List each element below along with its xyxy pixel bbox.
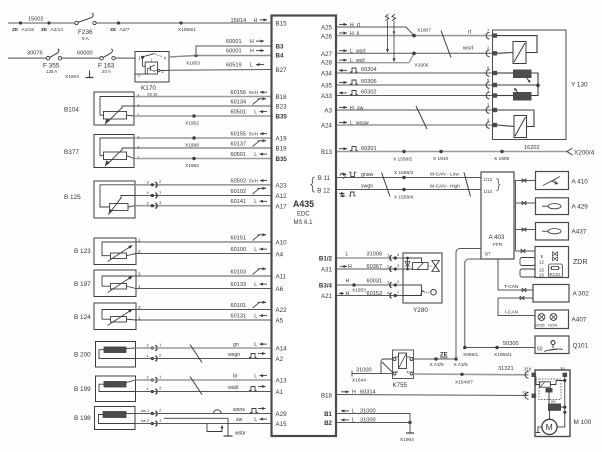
connector pair B125 pin2-3 xyxy=(147,200,163,209)
svg-text:A24: A24 xyxy=(321,123,333,130)
svg-text:X1907: X1907 xyxy=(417,28,431,34)
svg-text:B 200: B 200 xyxy=(74,352,91,359)
svg-text:X1953: X1953 xyxy=(352,288,366,294)
svg-text:31321: 31321 xyxy=(498,366,514,372)
wire 60031 (B3/4 to Y280) xyxy=(337,278,403,285)
svg-text:2: 2 xyxy=(147,343,150,348)
svg-text:B1: B1 xyxy=(324,411,332,418)
svg-text:B 125: B 125 xyxy=(64,194,81,201)
svg-text:A26: A26 xyxy=(321,34,333,41)
svg-text:6: 6 xyxy=(487,78,489,82)
Y130 pin 7 xyxy=(486,29,497,40)
node X1998 xyxy=(185,136,199,148)
svg-text:B 197: B 197 xyxy=(74,281,91,288)
twisted-pair mark CAN right xyxy=(464,173,471,197)
svg-text:A1/16: A1/16 xyxy=(22,27,35,33)
svg-text:2: 2 xyxy=(147,200,150,205)
brace for B11/B12 pins xyxy=(311,177,315,192)
svg-text:H: H xyxy=(346,278,350,284)
wire A403 3/7 down to X669/1 xyxy=(465,259,481,348)
Y130 pin 4 xyxy=(486,118,497,128)
sensor B123 (NTC thermistor) xyxy=(74,238,141,265)
svg-text:B377: B377 xyxy=(64,149,79,156)
svg-text:X 1910: X 1910 xyxy=(433,156,449,162)
svg-text:31b: 31b xyxy=(524,367,532,372)
svg-text:A 429: A 429 xyxy=(572,204,589,211)
wire 60151 (B123 to A10) xyxy=(136,235,271,242)
ground stub X1904 (upper) xyxy=(65,71,94,81)
node X 1910 xyxy=(433,150,449,162)
svg-text:A17: A17 xyxy=(276,204,288,211)
wire A34 60304 xyxy=(337,67,493,73)
svg-text:B 198: B 198 xyxy=(74,415,91,422)
transistor inside xyxy=(149,66,151,71)
wire B12 swgn M-CAN-High xyxy=(337,184,481,197)
svg-text:X 1558/3: X 1558/3 xyxy=(394,170,414,176)
wire wsns (B198 to A29) xyxy=(135,407,271,414)
fuse F355 125A xyxy=(43,49,62,74)
wire 60501 (B104-1 to B35) xyxy=(134,110,271,117)
twisted-pair mark rt/wsrt xyxy=(441,31,451,58)
wire branch to A437 xyxy=(516,228,536,232)
svg-text:B35: B35 xyxy=(276,156,288,163)
svg-text:2: 2 xyxy=(487,46,489,50)
node X 1558/4 xyxy=(394,188,414,201)
svg-text:1: 1 xyxy=(159,190,162,195)
svg-text:X1644: X1644 xyxy=(352,378,366,384)
svg-text:X200/4: X200/4 xyxy=(574,150,595,157)
svg-text:3: 3 xyxy=(147,180,150,185)
M100 internal relay (dashed box, MR) xyxy=(536,377,565,404)
node ZE A1/16 xyxy=(12,21,34,33)
svg-text:H: H xyxy=(348,264,352,270)
svg-text:60156: 60156 xyxy=(231,90,247,96)
wire 60367 (A31 to Y280) xyxy=(337,264,403,270)
twisted-pair mark CAN left xyxy=(382,173,391,197)
svg-text:A14: A14 xyxy=(276,346,288,353)
svg-text:31006: 31006 xyxy=(367,252,383,258)
svg-text:16: 16 xyxy=(539,273,544,278)
svg-text:B4: B4 xyxy=(276,53,284,60)
wire sw (B198 to A15) xyxy=(135,417,271,424)
svg-text:wsbr: wsbr xyxy=(235,431,246,437)
svg-text:B19: B19 xyxy=(276,146,288,153)
connector pair B200 bottom xyxy=(147,353,163,362)
fuse F163 20A xyxy=(98,49,115,74)
svg-text:3/7: 3/7 xyxy=(485,252,492,257)
svg-text:5VH: 5VH xyxy=(249,90,258,95)
control unit ZDR xyxy=(535,247,587,278)
svg-text:X1953: X1953 xyxy=(186,61,200,67)
svg-text:A407: A407 xyxy=(572,317,587,324)
svg-text:B 124: B 124 xyxy=(74,314,91,321)
svg-text:A31: A31 xyxy=(321,267,333,274)
sensor B377 (potentiometer) xyxy=(64,135,140,168)
wire A33 60302 xyxy=(337,90,493,96)
svg-text:4: 4 xyxy=(397,252,400,257)
svg-text:12: 12 xyxy=(539,260,544,265)
control unit A410 xyxy=(536,172,589,190)
svg-text:1: 1 xyxy=(159,418,162,423)
twisted-pair mark sw/wssw xyxy=(416,106,427,129)
wire 60103 (B197 to A11) xyxy=(136,269,271,276)
svg-text:31000: 31000 xyxy=(360,409,376,415)
connector pair B198 bottom xyxy=(141,418,162,427)
svg-text:2: 2 xyxy=(159,179,162,184)
svg-text:A12: A12 xyxy=(276,193,288,200)
wire 15002 / 15014 (terminal 15 feed) xyxy=(8,17,271,24)
node X A3/5 xyxy=(454,357,468,368)
svg-text:60137: 60137 xyxy=(231,142,247,148)
svg-text:A435: A435 xyxy=(293,199,314,209)
svg-text:7: 7 xyxy=(487,29,489,33)
svg-text:ZE: ZE xyxy=(440,353,448,359)
M100 pin30 feed line xyxy=(557,377,566,427)
svg-text:EDC: EDC xyxy=(297,212,310,218)
connector pair Y280 row1 (1-4) xyxy=(387,252,400,261)
wire bl (B199 to A13) xyxy=(136,374,272,381)
wire A25 rt xyxy=(337,22,414,35)
svg-text:1: 1 xyxy=(159,374,162,379)
Y130 solenoid coil 2 (dark) xyxy=(497,86,538,101)
svg-text:60141: 60141 xyxy=(231,199,247,205)
svg-text:X 1558/2: X 1558/2 xyxy=(393,157,413,163)
wire 60519 to B27 (from K170 pin 2) xyxy=(169,63,271,71)
svg-text:1/12: 1/12 xyxy=(484,177,493,182)
svg-text:H: H xyxy=(250,39,254,45)
M100 pin 30 xyxy=(560,367,567,378)
svg-text:H294: H294 xyxy=(548,324,557,328)
svg-text:A10: A10 xyxy=(276,240,288,247)
wire 60102 (B125 to A12) xyxy=(135,188,271,195)
Y130 pin 1 xyxy=(486,88,497,99)
wire I-CAN (A302 to A407) xyxy=(498,296,535,316)
svg-text:X 1909: X 1909 xyxy=(494,156,510,162)
svg-text:A29: A29 xyxy=(276,411,288,418)
svg-text:wsrt: wsrt xyxy=(462,46,474,52)
svg-text:B1/2: B1/2 xyxy=(319,256,333,263)
wire T-CAN (A403 to A302) xyxy=(498,259,533,292)
connector pair Y280 row2 (2-3) xyxy=(387,263,400,272)
svg-text:B 123: B 123 xyxy=(74,248,91,255)
svg-text:B23: B23 xyxy=(276,104,288,111)
svg-text:A25: A25 xyxy=(321,25,333,32)
wire 31000 (B1 to ground X1904) xyxy=(337,409,410,423)
svg-text:A22: A22 xyxy=(276,307,288,314)
node X1906 xyxy=(412,52,429,69)
svg-text:60100: 60100 xyxy=(231,247,247,253)
sensor B198 (needle motion sensor, shielded) xyxy=(74,407,135,430)
svg-text:H295: H295 xyxy=(536,324,545,328)
svg-text:T-CAN: T-CAN xyxy=(504,284,519,290)
svg-text:60001: 60001 xyxy=(226,39,242,45)
svg-text:B104: B104 xyxy=(64,107,79,114)
wire 60314 (B18 to M100 pin 50) xyxy=(337,390,529,396)
connector pair B125 pin6-1 xyxy=(147,190,163,199)
svg-text:ZE: ZE xyxy=(41,27,48,33)
wire 60501 (B377-1 to B35) xyxy=(134,152,271,159)
svg-text:L: L xyxy=(254,314,257,320)
svg-text:ZE: ZE xyxy=(12,27,19,33)
svg-text:sw: sw xyxy=(236,417,243,423)
svg-text:gn: gn xyxy=(233,342,239,348)
svg-text:rt: rt xyxy=(468,30,472,36)
svg-text:60519: 60519 xyxy=(226,63,242,69)
svg-text:A6: A6 xyxy=(276,286,284,293)
svg-text:X1559/1: X1559/1 xyxy=(178,27,196,33)
svg-text:wsgn: wsgn xyxy=(228,352,240,358)
svg-text:A437: A437 xyxy=(572,229,587,236)
svg-text:wsrt: wsrt xyxy=(356,49,366,55)
svg-text:H: H xyxy=(350,22,354,28)
valve block Y130 xyxy=(493,30,589,140)
svg-text:X1982: X1982 xyxy=(185,163,199,169)
svg-text:A 410: A 410 xyxy=(572,179,589,186)
svg-text:A33: A33 xyxy=(321,93,333,100)
wire A27 wsrt / merged wsrt to Y130 pin2 xyxy=(337,46,493,55)
svg-text:ZDR: ZDR xyxy=(573,259,587,266)
svg-text:B3/4: B3/4 xyxy=(319,283,333,290)
sensor B124 (NTC thermistor) xyxy=(74,303,141,330)
Y130 node (coils join pin 6) xyxy=(497,84,540,88)
glow plug continuation line 1 xyxy=(386,14,390,53)
connector pair B200 top xyxy=(147,342,163,351)
svg-text:A2: A2 xyxy=(276,356,284,363)
svg-text:A21: A21 xyxy=(321,293,333,300)
A435 right pin labels xyxy=(317,25,332,428)
svg-text:60314: 60314 xyxy=(360,390,376,396)
Y130 valve 1 (top, white with diagonal) xyxy=(497,36,537,64)
svg-text:Y280: Y280 xyxy=(413,307,428,314)
svg-text:L: L xyxy=(254,247,257,253)
svg-text:A 302: A 302 xyxy=(573,291,590,298)
svg-text:87: 87 xyxy=(407,370,411,374)
svg-text:X1549/7: X1549/7 xyxy=(455,380,473,386)
svg-text:L: L xyxy=(254,342,257,348)
svg-text:MS 6.1: MS 6.1 xyxy=(294,220,314,226)
svg-text:M 100: M 100 xyxy=(574,419,592,426)
sensor B197 (NTC thermistor) xyxy=(74,270,141,297)
wire 60502 (B125 to A23) xyxy=(135,178,271,185)
svg-text:bl: bl xyxy=(233,374,237,380)
svg-text:X1955/1: X1955/1 xyxy=(494,352,512,358)
shield wsbr of B198 xyxy=(164,410,246,437)
svg-text:31000: 31000 xyxy=(360,418,376,424)
svg-text:A27: A27 xyxy=(321,51,333,58)
control unit A429 xyxy=(536,198,589,215)
svg-text:3: 3 xyxy=(397,263,400,268)
ZDR left connector plugs xyxy=(520,258,535,278)
svg-text:60151: 60151 xyxy=(231,236,247,242)
M100 pin 31b xyxy=(524,367,536,379)
svg-text:2: 2 xyxy=(159,353,162,358)
wire branch to ZDR xyxy=(516,249,536,253)
wire A24 wssw xyxy=(337,120,493,126)
wire 60156 (B104-3 to B18) xyxy=(134,90,271,97)
sensor B104 (potentiometer) xyxy=(64,92,140,125)
svg-text:A5: A5 xyxy=(276,318,284,325)
wire 31006 (B1/2 to Y280) xyxy=(337,252,403,259)
svg-text:HR: HR xyxy=(551,400,556,404)
node X1955/1 xyxy=(494,346,512,358)
svg-text:K755: K755 xyxy=(393,382,408,389)
svg-text:30: 30 xyxy=(560,367,565,372)
svg-text:swgn: swgn xyxy=(361,184,373,190)
svg-text:A 403: A 403 xyxy=(489,234,505,241)
svg-text:H: H xyxy=(346,291,350,297)
svg-text:5: 5 xyxy=(487,66,489,70)
svg-text:L: L xyxy=(352,418,355,424)
svg-text:B 12: B 12 xyxy=(317,188,330,195)
svg-text:1: 1 xyxy=(147,386,150,391)
CAN branch bus (vertical) xyxy=(515,181,517,252)
wire 60001 to B3 xyxy=(196,39,271,56)
svg-text:B35: B35 xyxy=(276,114,288,121)
svg-text:M-CAN - Low: M-CAN - Low xyxy=(430,172,459,178)
wire 31000 (X1644 to K755) xyxy=(352,368,395,384)
svg-text:L: L xyxy=(254,152,257,158)
Y130 pin 5 xyxy=(486,66,497,77)
svg-text:ZE: ZE xyxy=(110,27,117,33)
wire A403 to ZE node X A3/5 xyxy=(456,249,481,360)
svg-text:R134: R134 xyxy=(550,272,561,277)
svg-text:60304: 60304 xyxy=(361,67,377,73)
svg-text:wssw: wssw xyxy=(356,120,369,126)
svg-text:4: 4 xyxy=(487,118,489,122)
svg-text:B15: B15 xyxy=(276,21,288,28)
wire gn (B200 to A14) xyxy=(136,342,272,348)
twisted-pair mark B200 xyxy=(190,345,202,363)
svg-text:B 199: B 199 xyxy=(74,386,91,393)
svg-text:L: L xyxy=(254,282,257,288)
svg-text:60101: 60101 xyxy=(231,303,247,309)
svg-text:A13: A13 xyxy=(276,378,288,385)
svg-text:B2: B2 xyxy=(324,420,332,427)
control unit A437 xyxy=(536,223,587,241)
node X1559/1 xyxy=(178,21,196,32)
wire 60141 (B125 to A17) xyxy=(135,199,271,206)
svg-text:B27: B27 xyxy=(276,67,288,74)
node X669/1 xyxy=(463,346,479,358)
svg-text:85: 85 xyxy=(407,355,411,359)
svg-text:60133: 60133 xyxy=(231,282,247,288)
wire A28 wsli xyxy=(337,53,414,64)
sensor B199 (inductive speed sensor) xyxy=(74,376,136,402)
svg-text:Q101: Q101 xyxy=(573,343,589,350)
svg-text:rt: rt xyxy=(357,22,361,28)
svg-text:M-CAN - High: M-CAN - High xyxy=(430,184,460,190)
starter motor M100 box xyxy=(535,370,592,437)
svg-text:1: 1 xyxy=(147,353,150,358)
connector pair B199 top xyxy=(147,374,163,383)
wire A35 60306 xyxy=(337,79,493,85)
node ZE A2/7 xyxy=(110,21,130,33)
Y130 solenoid coil 1 (dark) xyxy=(497,70,538,86)
A435 left pin labels xyxy=(276,21,288,429)
svg-text:L: L xyxy=(350,120,353,126)
wire A26 li / merged rt to Y130 pin7 xyxy=(337,30,493,38)
svg-text:60153: 60153 xyxy=(367,291,383,297)
svg-text:20 A: 20 A xyxy=(102,69,111,74)
wire 60131 (B124 to A5) xyxy=(136,314,271,321)
wire wsbl (B199 to A1) xyxy=(136,385,272,392)
svg-text:A28: A28 xyxy=(321,60,333,67)
svg-text:5VH: 5VH xyxy=(249,132,258,137)
svg-text:X1952: X1952 xyxy=(185,121,199,127)
svg-text:60000: 60000 xyxy=(77,51,93,57)
svg-text:1/10: 1/10 xyxy=(484,189,493,194)
svg-text:50: 50 xyxy=(537,347,543,353)
svg-text:wsns: wsns xyxy=(233,407,245,413)
svg-text:60306: 60306 xyxy=(361,79,377,85)
svg-text:125 A: 125 A xyxy=(46,69,57,74)
svg-text:A23: A23 xyxy=(276,183,288,190)
control unit A302 xyxy=(533,285,589,303)
svg-text:2: 2 xyxy=(159,386,162,391)
solenoid valve unit Y280 xyxy=(403,253,442,314)
svg-text:60001: 60001 xyxy=(226,49,242,55)
svg-text:A3: A3 xyxy=(324,108,332,115)
svg-text:H: H xyxy=(352,390,356,396)
svg-text:wsbl: wsbl xyxy=(228,385,238,391)
svg-text:L: L xyxy=(254,374,257,380)
svg-text:15014: 15014 xyxy=(231,18,247,24)
svg-text:60501: 60501 xyxy=(231,152,247,158)
svg-text:2: 2 xyxy=(159,408,162,413)
svg-text:31000: 31000 xyxy=(356,368,372,374)
svg-text:1: 1 xyxy=(487,88,489,92)
internal: check valve + solenoid coil + X-valve xyxy=(407,258,409,269)
svg-text:L: L xyxy=(254,110,257,116)
svg-text:H: H xyxy=(254,18,258,24)
svg-text:A2/7: A2/7 xyxy=(120,27,130,33)
wire wsgn (B200 to A2) xyxy=(136,352,272,359)
svg-text:60201: 60201 xyxy=(361,146,377,152)
svg-text:H: H xyxy=(350,105,354,111)
svg-text:M: M xyxy=(546,422,553,432)
svg-text:1: 1 xyxy=(397,290,400,295)
svg-text:A11: A11 xyxy=(276,274,287,281)
wire 60137 (B377-4 to B19) xyxy=(134,141,271,148)
wire B11 gnsw M-CAN-Low xyxy=(337,172,481,179)
svg-text:B3: B3 xyxy=(276,44,284,51)
wire 31321 (K755-87 to M100 31b) xyxy=(413,366,529,375)
M100 solenoid HR xyxy=(549,400,567,419)
wire A403 to A410 xyxy=(514,179,536,183)
svg-text:L: L xyxy=(254,199,257,205)
svg-text:X1904: X1904 xyxy=(65,74,79,80)
svg-text:30076: 30076 xyxy=(27,51,43,57)
node X1953 (60001 branch) xyxy=(186,54,200,67)
node X 1909 xyxy=(494,150,510,162)
svg-text:X1904: X1904 xyxy=(400,437,414,443)
connector pair Y280 row4 (4-1) xyxy=(387,290,400,299)
svg-text:sw 2: sw 2 xyxy=(141,418,150,423)
Y130 pin 2 xyxy=(486,46,497,57)
connector pair B198 top xyxy=(141,408,162,417)
svg-text:L: L xyxy=(350,49,353,55)
wire 60001 to B4 (from K170 pin 4) xyxy=(169,49,271,58)
svg-text:3: 3 xyxy=(159,200,162,205)
svg-text:1: 1 xyxy=(159,342,162,347)
svg-text:Y 130: Y 130 xyxy=(571,82,588,89)
relay K755 xyxy=(381,350,414,389)
svg-text:60367: 60367 xyxy=(367,264,383,270)
svg-text:5 A: 5 A xyxy=(82,36,90,41)
svg-text:H: H xyxy=(250,49,254,55)
node X 1558/3 xyxy=(394,170,414,179)
svg-text:A1: A1 xyxy=(276,389,284,396)
